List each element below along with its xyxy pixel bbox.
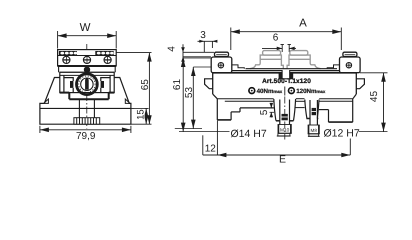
mid section body bbox=[60, 72, 114, 92]
svg-text:53: 53 bbox=[184, 87, 195, 99]
left tab bbox=[205, 79, 213, 89]
phantom jaw right (gray) bbox=[287, 51, 321, 69]
body trapezoid sides bbox=[40, 78, 131, 125]
dimension 4 bbox=[181, 44, 214, 62]
svg-text:12: 12 bbox=[205, 144, 217, 155]
left foot bbox=[217, 99, 274, 120]
svg-text:Ø14 H7: Ø14 H7 bbox=[231, 128, 267, 140]
dimension 79,9 bbox=[40, 126, 131, 133]
dimension W bbox=[58, 31, 117, 49]
bottom extension line (stud bottoms) bbox=[179, 131, 230, 133]
svg-text:45: 45 bbox=[369, 91, 380, 103]
phantom jaw left (gray) bbox=[250, 51, 283, 69]
top bar bbox=[58, 50, 117, 66]
svg-text:40Nmmax: 40Nmmax bbox=[257, 88, 283, 95]
svg-text:15: 15 bbox=[136, 109, 147, 120]
svg-text:Ø12 H7: Ø12 H7 bbox=[324, 128, 360, 140]
dimension 12 and E bbox=[203, 121, 350, 158]
mid band bbox=[59, 66, 116, 72]
svg-text:6: 6 bbox=[273, 33, 279, 44]
body bottom lines bbox=[217, 99, 353, 102]
screw middle bbox=[83, 56, 90, 63]
screw right bbox=[104, 56, 111, 63]
chamfer triangle right bbox=[125, 99, 130, 103]
clamp arm left bbox=[64, 75, 74, 92]
end block left bbox=[211, 52, 232, 72]
dimension 6 bbox=[262, 45, 296, 53]
stud M8 (Ø12) bbox=[308, 100, 320, 136]
svg-text:M8: M8 bbox=[311, 128, 318, 133]
cone boss left stud bbox=[274, 99, 296, 121]
bottom hat of mid section bbox=[60, 93, 114, 100]
svg-text:61: 61 bbox=[172, 79, 183, 91]
serrated foot bbox=[74, 118, 100, 125]
serrated pad right bbox=[95, 51, 113, 55]
svg-text:120Nmmax: 120Nmmax bbox=[296, 88, 326, 95]
chamfer triangle left bbox=[44, 99, 49, 103]
dimension 45 bbox=[359, 73, 388, 132]
clamp arm right bbox=[101, 75, 111, 92]
dimension 61 bbox=[181, 58, 211, 132]
end block right bbox=[340, 52, 361, 72]
svg-text:65: 65 bbox=[140, 79, 151, 91]
main body slab top edge (interrupted by slot) bbox=[213, 72, 282, 74]
svg-text:W: W bbox=[80, 22, 91, 34]
svg-text:Art.500-T.1x120: Art.500-T.1x120 bbox=[262, 78, 311, 85]
stud M10 (Ø14) bbox=[277, 100, 292, 137]
neck bbox=[83, 72, 92, 76]
column bbox=[78, 99, 80, 118]
body sides bbox=[213, 73, 357, 94]
screw left bbox=[63, 56, 70, 63]
right tab bbox=[356, 79, 364, 89]
dimension 5 bbox=[270, 103, 275, 118]
svg-text:3: 3 bbox=[200, 30, 206, 41]
knob bbox=[84, 67, 89, 72]
base seam bbox=[40, 107, 131, 109]
thick shelf line bbox=[58, 65, 117, 67]
lower body chamfers bbox=[213, 94, 357, 99]
serrated pad left bbox=[59, 51, 77, 55]
dimension 65 bbox=[116, 53, 152, 125]
cone boss right stud bbox=[305, 100, 319, 119]
dimension 15 bbox=[132, 108, 149, 124]
svg-text:A: A bbox=[299, 18, 307, 30]
center slot bbox=[279, 70, 294, 79]
recess between studs bbox=[295, 107, 305, 109]
centerline right view bbox=[284, 97, 286, 140]
centerline left view bbox=[86, 44, 88, 129]
svg-text:M10: M10 bbox=[280, 127, 290, 133]
logo left 40Nmax bbox=[249, 88, 283, 95]
knurled ring bbox=[77, 74, 98, 95]
svg-text:4: 4 bbox=[166, 46, 177, 52]
svg-text:E: E bbox=[279, 154, 286, 166]
dimension 3 bbox=[198, 41, 217, 52]
svg-text:5: 5 bbox=[259, 109, 270, 115]
dimension A bbox=[231, 28, 341, 51]
logo right 120Nmax bbox=[289, 88, 326, 95]
separator tick bbox=[284, 87, 286, 96]
recess right of right cone bbox=[319, 99, 353, 122]
rail top surface bbox=[232, 65, 340, 71]
dimension 53 bbox=[175, 67, 211, 129]
svg-text:79,9: 79,9 bbox=[76, 131, 96, 142]
